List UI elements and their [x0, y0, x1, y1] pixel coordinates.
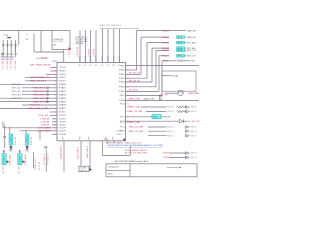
svg-text:GNDA: GNDA [119, 99, 126, 102]
svg-text:+AB3V GE: +AB3V GE [187, 36, 197, 39]
svg-text:C9 10P: C9 10P [15, 45, 17, 52]
svg-text:LED1: LED1 [19, 156, 21, 164]
svg-text:WKUP1: WKUP1 [59, 81, 66, 83]
svg-text:PD7: PD7 [119, 55, 121, 61]
svg-text:PD6: PD6 [113, 55, 115, 61]
svg-text:TP GND 2: TP GND 2 [47, 154, 49, 165]
svg-text:P2: P2 [178, 42, 183, 44]
svg-text:+1V8_M: +1V8_M [40, 119, 49, 121]
svg-text:PA4: PA4 [59, 97, 66, 100]
svg-text:VDDI: VDDI [59, 125, 67, 127]
svg-text:GE_IO: GE_IO [191, 157, 198, 159]
svg-text:P5: P5 [178, 56, 183, 58]
svg-text:+AVL_AVD_PWR: +AVL_AVD_PWR [187, 120, 200, 123]
svg-text:OSC_24M_GG: OSC_24M_GG [75, 41, 88, 43]
svg-text:C14 100N: C14 100N [15, 60, 17, 70]
svg-text:AT91_DATA_SHEET: AT91_DATA_SHEET [125, 149, 148, 152]
svg-text:PB5: PB5 [119, 91, 125, 93]
svg-text:GE_IO: GE_IO [191, 135, 198, 137]
svg-text:VDDC: VDDC [59, 112, 67, 114]
svg-text:GPIO_B2: GPIO_B2 [12, 94, 21, 96]
svg-text:SP1_A30: SP1_A30 [187, 41, 196, 44]
svg-text:+1V8_GG: +1V8_GG [38, 115, 48, 117]
svg-text:+1V8_M: +1V8_M [40, 125, 49, 127]
svg-text:PD0: PD0 [80, 55, 82, 61]
svg-text:TXD2: TXD2 [163, 153, 169, 155]
svg-text:GE_IO: GE_IO [191, 107, 198, 109]
svg-text:PWR_ON_SW 3: PWR_ON_SW 3 [30, 81, 47, 83]
svg-text:PWR_EN/WAKE_UP0: PWR_EN/WAKE_UP0 [30, 76, 51, 79]
svg-text:4 5 6: 4 5 6 [39, 162, 41, 170]
svg-text:GPIO_B1: GPIO_B1 [12, 91, 21, 93]
svg-text:PC5: PC5 [120, 131, 125, 133]
svg-text:GND 1 2 3: GND 1 2 3 [35, 158, 37, 170]
svg-text:RXD1: RXD1 [162, 56, 169, 58]
svg-text:PA3: PA3 [59, 93, 66, 96]
svg-text:PA1: PA1 [59, 87, 66, 90]
svg-text:PB7: PB7 [120, 95, 125, 97]
svg-text:R13 470: R13 470 [31, 137, 33, 145]
svg-text:GSM_PWR: GSM_PWR [188, 93, 200, 95]
svg-text:PB4: PB4 [119, 87, 125, 89]
svg-text:VDDI: VDDI [59, 119, 67, 121]
svg-text:PA2: PA2 [59, 90, 66, 93]
svg-text:XIN GG: XIN GG [75, 43, 84, 45]
svg-text:Grace: Grace [41, 56, 48, 59]
svg-text:PROPOSED: add cross ref: PROPOSED: add cross ref [108, 142, 142, 144]
svg-text:MMC_CLK_GSM: MMC_CLK_GSM [129, 111, 142, 113]
svg-text:GE_IO: GE_IO [191, 131, 198, 133]
svg-text:Component: Component [108, 166, 120, 169]
svg-text:RXD0: RXD0 [162, 37, 169, 39]
svg-text:GND 1-9: GND 1-9 [80, 170, 87, 172]
svg-text:+AB3V GE: +AB3V GE [187, 29, 197, 32]
svg-text:VSS3: VSS3 [104, 139, 109, 141]
svg-text:+3V3_SAM9: +3V3_SAM9 [37, 127, 52, 130]
svg-text:PB1: PB1 [119, 74, 125, 76]
svg-text:RTS0: RTS0 [162, 42, 169, 44]
svg-text:exclusively ◆: exclusively ◆ [167, 166, 182, 169]
svg-text:PWM_GPIO_0: PWM_GPIO_0 [33, 88, 46, 90]
svg-text:RST_PWR_3V3_A: RST_PWR_3V3_A [30, 63, 51, 66]
svg-text:DCU_GG: DCU_GG [30, 105, 41, 107]
svg-text:PC0: PC0 [120, 104, 125, 106]
svg-text:SPI_CS1_GG: SPI_CS1_GG [129, 80, 140, 82]
svg-text:GND GND 9: GND GND 9 [87, 146, 89, 158]
svg-text:JTAG_TCK_TMS_TDI 3: JTAG_TCK_TMS_TDI 3 [100, 24, 121, 27]
svg-text:4K7 4K7: 4K7 4K7 [161, 94, 169, 96]
svg-text:PA0: PA0 [59, 83, 66, 86]
svg-text:PC1: PC1 [120, 117, 125, 119]
svg-text:FB3: FB3 [153, 117, 158, 119]
svg-text:000: 000 [126, 107, 129, 109]
svg-text:PROG_C2: PROG_C2 [167, 131, 174, 133]
svg-text:PROG_B2: PROG_B2 [167, 107, 174, 109]
svg-text:PWM_GPIO_1: PWM_GPIO_1 [33, 91, 46, 93]
svg-text:VDDI: VDDI [59, 122, 67, 124]
svg-text:P4: P4 [178, 50, 183, 52]
svg-text:GPIO_A1: GPIO_A1 [12, 83, 21, 86]
svg-text:+3V3: +3V3 [94, 49, 96, 57]
svg-text:PROG_B3: PROG_B3 [167, 111, 174, 113]
svg-text:GND GND 9: GND GND 9 [78, 147, 80, 159]
svg-text:P1: P1 [178, 37, 183, 39]
svg-text:VSSCO: VSSCO [117, 134, 124, 136]
svg-text:PWM_GPIO_2: PWM_GPIO_2 [33, 94, 46, 96]
svg-text:PD5: PD5 [108, 55, 110, 61]
svg-text:GPIO_C1: GPIO_C1 [12, 98, 21, 100]
svg-text:PC3: PC3 [120, 122, 125, 124]
svg-text:Y1 12M: Y1 12M [3, 35, 8, 37]
svg-text:000: 000 [126, 116, 129, 118]
svg-text:+3V3: +3V3 [89, 49, 91, 57]
svg-text:PD3: PD3 [96, 55, 98, 61]
svg-text:GG_GPIO: GG_GPIO [129, 90, 139, 92]
svg-text:AT-D: AT-D [108, 172, 114, 175]
svg-text:X2: X2 [26, 34, 28, 36]
svg-text:000: 000 [126, 70, 129, 72]
svg-text:TXD1: TXD1 [162, 50, 169, 52]
svg-text:MMC_CMD: MMC_CMD [129, 107, 141, 109]
svg-text:PA5: PA5 [59, 100, 66, 103]
svg-text:PROG_C1: PROG_C1 [167, 127, 174, 129]
svg-text:PD1: PD1 [85, 55, 87, 61]
svg-text:PCK0_MCK_C: PCK0_MCK_C [75, 37, 88, 39]
svg-text:PB9: PB9 [120, 65, 125, 67]
svg-text:+1V8_M: +1V8_M [40, 122, 49, 124]
svg-text:VDDI: VDDI [59, 115, 67, 117]
svg-text:PB0: PB0 [119, 70, 125, 72]
svg-text:PROG_C3: PROG_C3 [167, 135, 174, 137]
svg-text:000: 000 [126, 100, 129, 102]
svg-text:PB3_GSM_2_GB: PB3_GSM_2_GB [28, 108, 49, 110]
svg-text:NRST: NRST [59, 71, 66, 73]
svg-text:TXD0: TXD0 [162, 30, 169, 32]
svg-text:AT91RS7 AT91SAM9 wiring TBD♦: AT91RS7 AT91SAM9 wiring TBD♦ [115, 160, 148, 163]
svg-text:MMC2_CMD: MMC2_CMD [129, 122, 141, 124]
svg-text:PA6: PA6 [59, 104, 66, 107]
svg-text:PD4: PD4 [102, 55, 104, 61]
svg-text:MMC0_GSM: MMC0_GSM [129, 99, 140, 101]
svg-text:GE1_CS: GE1_CS [187, 56, 197, 58]
svg-text:000: 000 [126, 95, 129, 97]
svg-text:PB2: PB2 [119, 78, 125, 80]
svg-text:COMM: COMM [80, 168, 87, 170]
svg-text:MMC2_CLK_GSM: MMC2_CLK_GSM [129, 131, 143, 133]
svg-text:C14 100N: C14 100N [11, 60, 13, 70]
svg-text:SPI_CS0_GG: SPI_CS0_GG [129, 73, 140, 75]
svg-text:PB3: PB3 [119, 82, 125, 84]
svg-text:000: 000 [126, 65, 129, 67]
svg-text:WKUP0: WKUP0 [59, 77, 66, 79]
svg-text:C14 100N: C14 100N [3, 60, 5, 70]
svg-text:000: 000 [126, 111, 129, 113]
svg-text:D5 LED: D5 LED [19, 165, 21, 174]
svg-text:GE_IO: GE_IO [191, 153, 198, 155]
svg-text:GE_IO: GE_IO [191, 111, 198, 113]
svg-text:D5 LED: D5 LED [3, 165, 5, 174]
svg-text:GE_IO: GE_IO [191, 127, 198, 129]
svg-text:GNDA GND 9: GNDA GND 9 [60, 146, 63, 159]
svg-text:+3V3_SAM9: +3V3_SAM9 [37, 130, 52, 133]
svg-text:MMC2_CLK_GSM: MMC2_CLK_GSM [129, 127, 143, 129]
svg-text:LED1: LED1 [4, 156, 6, 164]
svg-text:SP1_CS: SP1_CS [187, 50, 197, 52]
svg-text:GPIO_A2: GPIO_A2 [12, 87, 21, 90]
svg-text:BOOT 3V3: BOOT 3V3 [54, 41, 63, 43]
svg-text:PA7: PA7 [59, 107, 66, 110]
svg-text:TST: TST [59, 67, 66, 69]
svg-text:TXD2: TXD2 [163, 157, 169, 159]
svg-text:SHDN: SHDN [59, 74, 67, 76]
svg-text:C14 100N: C14 100N [7, 60, 9, 70]
svg-text:PC4: PC4 [120, 127, 125, 129]
svg-text:R12 470: R12 470 [15, 137, 17, 145]
svg-text:000: 000 [126, 103, 129, 105]
svg-text:CLK_GG 3 12: CLK_GG 3 12 [75, 39, 87, 41]
svg-text:MICROMODULE KEYBOARD AVR 2.0 R: MICROMODULE KEYBOARD AVR 2.0 R TBD [108, 144, 164, 147]
svg-text:R21: R21 [164, 61, 169, 63]
svg-text:+AB3V GE 1: +AB3V GE 1 [143, 98, 155, 101]
svg-text:AT91_CYCLONE_REF: AT91_CYCLONE_REF [125, 152, 148, 155]
svg-text:DNI 0R: DNI 0R [170, 75, 179, 77]
svg-text:000: 000 [126, 86, 129, 88]
svg-text:000: 000 [126, 122, 129, 124]
